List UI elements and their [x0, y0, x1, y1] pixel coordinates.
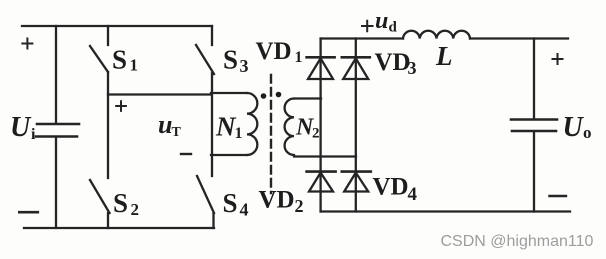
- svg-text:U: U: [10, 112, 32, 143]
- svg-text:4: 4: [240, 200, 249, 220]
- node - output terminal: [550, 195, 567, 197]
- node + output terminal: [553, 54, 563, 64]
- switch S2: [90, 180, 110, 228]
- svg-text:1: 1: [130, 56, 139, 75]
- transformer polarity dot secondary: [276, 92, 282, 98]
- node - uT polarity: [181, 153, 191, 155]
- svg-text:VD: VD: [259, 187, 295, 214]
- transformer polarity dot primary: [261, 93, 267, 99]
- svg-text:S: S: [223, 45, 238, 75]
- svg-text:U: U: [563, 112, 585, 143]
- switch S1: [90, 26, 108, 72]
- diode VD3: [342, 56, 370, 59]
- svg-text:3: 3: [240, 56, 249, 76]
- svg-text:VD: VD: [375, 49, 411, 76]
- svg-text:VD: VD: [373, 173, 409, 200]
- svg-text:2: 2: [131, 200, 140, 219]
- node + ud polarity: [362, 21, 373, 31]
- wire top bus: [22, 25, 212, 27]
- svg-text:o: o: [583, 123, 592, 142]
- svg-text:VD: VD: [256, 38, 292, 65]
- transformer secondary winding N2: [285, 99, 294, 156]
- wire diode right leg: [355, 39, 357, 212]
- capacitor Cin plates: [36, 124, 79, 137]
- switch S3: [196, 26, 214, 74]
- switch S4: [197, 176, 214, 228]
- diode VD4: [342, 170, 371, 173]
- svg-text:1: 1: [235, 125, 243, 142]
- wire rectifier bottom bus: [321, 210, 570, 212]
- wire primary top lead: [211, 92, 247, 94]
- svg-text:S: S: [113, 188, 128, 218]
- wire secondary top lead: [294, 97, 321, 99]
- wire output rail: [533, 39, 535, 212]
- svg-text:u: u: [158, 110, 172, 139]
- wire left leg: [107, 72, 109, 178]
- svg-text:3: 3: [408, 58, 417, 78]
- wire secondary bottom lead: [294, 155, 356, 157]
- wire diode left leg: [319, 39, 321, 212]
- wire rectifier top bus: [321, 37, 568, 39]
- transformer core dashed line: [270, 75, 272, 193]
- svg-text:2: 2: [295, 196, 304, 216]
- capacitor Cout plates: [511, 120, 557, 132]
- wire bridge midline: [108, 93, 211, 95]
- svg-text:CSDN @highman110: CSDN @highman110: [441, 233, 594, 250]
- svg-text:1: 1: [295, 49, 303, 66]
- svg-text:4: 4: [408, 184, 418, 205]
- svg-text:L: L: [435, 41, 453, 71]
- inductor L: [403, 31, 470, 39]
- svg-text:u: u: [375, 8, 388, 34]
- transformer primary winding N1: [247, 93, 257, 155]
- wire right leg: [211, 73, 213, 176]
- svg-text:i: i: [31, 126, 36, 143]
- wire primary bottom lead: [211, 154, 247, 156]
- wire left input rail: [55, 26, 57, 228]
- svg-text:T: T: [172, 125, 182, 140]
- diode VD1: [307, 56, 335, 59]
- diode VD2: [307, 170, 336, 173]
- node - input terminal: [19, 211, 38, 214]
- svg-text:S: S: [112, 45, 127, 75]
- svg-text:S: S: [223, 188, 238, 218]
- node + input terminal: [22, 39, 32, 49]
- svg-text:2: 2: [312, 126, 320, 142]
- node + uT polarity: [116, 101, 126, 111]
- svg-text:d: d: [389, 20, 398, 36]
- wire bottom bus: [24, 227, 214, 229]
